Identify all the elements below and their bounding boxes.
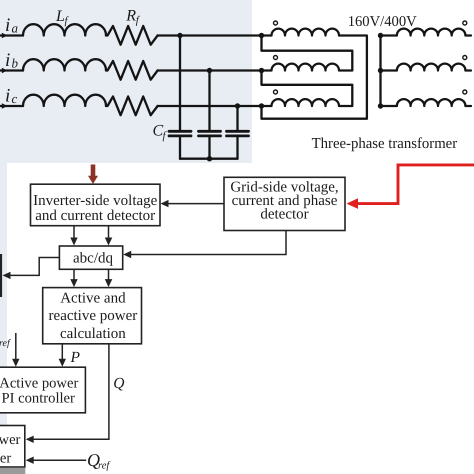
capacitor Cf branch 3 wire bottom bbox=[236, 137, 238, 159]
wire Q to reactive power controller bbox=[30, 344, 109, 440]
transformer secondary bus bbox=[379, 36, 381, 107]
phase b input arrowhead bbox=[2, 68, 8, 74]
transformer secondary winding 2 bbox=[381, 64, 472, 71]
arrowhead power calc top left bbox=[70, 279, 77, 287]
polarity dot primary 3 bbox=[274, 90, 278, 94]
wire Uref to active power controller bbox=[15, 333, 17, 364]
arrowhead into PWM sliver bbox=[3, 272, 11, 279]
svg-text:a: a bbox=[12, 21, 19, 36]
svg-text:PI controller: PI controller bbox=[2, 390, 75, 406]
wire inverter detector to abc/dq left bbox=[73, 226, 75, 243]
capacitor Cf branch 1 wire bottom bbox=[179, 137, 181, 159]
resistor Rf phase c bbox=[106, 97, 158, 116]
junction node delta C bbox=[259, 103, 264, 108]
svg-text:L: L bbox=[55, 8, 65, 25]
svg-text:P: P bbox=[70, 349, 81, 366]
arrowhead Uref into active power controller bbox=[12, 359, 19, 367]
inductor Lf phase b bbox=[23, 59, 106, 70]
box grid-side voltage current and phase detector bbox=[224, 177, 345, 230]
inductor Lf phase c bbox=[23, 95, 106, 106]
junction node delta A bbox=[259, 33, 264, 38]
svg-text:abc/dq: abc/dq bbox=[73, 251, 113, 267]
gray shadow under reactive power box bbox=[0, 468, 25, 474]
box active power PI controller (cut at left) bbox=[0, 367, 85, 413]
wire phase b input bbox=[0, 69, 23, 71]
svg-text:detector: detector bbox=[260, 207, 308, 223]
left edge strip bbox=[0, 163, 7, 474]
wire phase c input bbox=[0, 105, 23, 107]
capacitor Cf branch 3 plates bbox=[227, 131, 249, 136]
svg-text:b: b bbox=[12, 56, 19, 71]
box abc/dq bbox=[59, 246, 122, 269]
red arrowhead into grid-side detector bbox=[347, 198, 359, 209]
polarity dot primary 2 bbox=[274, 56, 278, 60]
svg-text:calculation: calculation bbox=[60, 326, 126, 342]
wire abc/dq to power calc right bbox=[108, 269, 110, 283]
wire abc/dq to PWM sliver bbox=[7, 258, 59, 276]
arrowhead Qref into reactive power controller bbox=[26, 457, 34, 464]
svg-text:Three-phase transformer: Three-phase transformer bbox=[312, 135, 458, 152]
phase c input arrowhead bbox=[2, 103, 8, 109]
svg-text:i: i bbox=[5, 15, 10, 36]
junction node delta B bbox=[259, 68, 264, 73]
transformer primary winding 3 bbox=[262, 71, 353, 107]
junction node phase a / cap1 bbox=[177, 33, 182, 38]
arrowhead P into active power controller bbox=[59, 359, 66, 367]
arrowhead power calc top right bbox=[105, 279, 113, 287]
arrowhead abc/dq top right bbox=[105, 238, 113, 246]
transformer primary winding 1 bbox=[262, 29, 367, 119]
svg-text:Inverter-side voltage: Inverter-side voltage bbox=[33, 193, 158, 209]
phase a input arrowhead bbox=[2, 33, 8, 39]
wire inverter detector to abc/dq right bbox=[108, 226, 110, 243]
wire Qref to reactive power controller bbox=[30, 459, 86, 461]
wire grid detector to abc/dq bbox=[127, 231, 286, 255]
polarity dot secondary 1 bbox=[463, 21, 467, 25]
polarity dot secondary 2 bbox=[463, 56, 467, 60]
wire grid-side detector to inverter-side detector bbox=[164, 203, 224, 205]
junction node phase b / cap2 bbox=[207, 68, 212, 73]
svg-text:Active and: Active and bbox=[60, 291, 126, 307]
transformer primary winding 2 bbox=[262, 36, 353, 71]
wire P to active power controller bbox=[61, 344, 63, 364]
red line from grid to grid-side detector bbox=[356, 165, 474, 204]
svg-text:and current detector: and current detector bbox=[35, 208, 155, 224]
arrowhead abc/dq top left bbox=[70, 238, 77, 246]
capacitor Cf branch 1 plates bbox=[169, 131, 191, 136]
svg-text:160V/400V: 160V/400V bbox=[348, 14, 417, 30]
transformer secondary winding 3 bbox=[381, 99, 472, 106]
polarity dot primary 1 bbox=[274, 21, 278, 25]
junction node wye 1 bbox=[378, 33, 383, 38]
svg-text:i: i bbox=[5, 50, 10, 71]
inductor Lf phase a bbox=[23, 24, 106, 35]
svg-text:reactive power: reactive power bbox=[49, 308, 138, 324]
svg-text:Active power: Active power bbox=[0, 375, 78, 391]
svg-text:R: R bbox=[125, 7, 136, 24]
resistor Rf phase b bbox=[106, 61, 158, 80]
resistor Rf phase a bbox=[106, 26, 158, 45]
svg-text:ref: ref bbox=[0, 338, 11, 349]
box reactive power PI controller (cut at left) bbox=[0, 426, 25, 468]
wire phase a to transformer bbox=[158, 34, 262, 36]
box active and reactive power calculation bbox=[43, 288, 142, 344]
arrowhead Q into reactive power controller bbox=[26, 436, 34, 443]
transformer secondary winding 1 bbox=[381, 29, 472, 36]
capacitor Cf branch 2 plates bbox=[199, 131, 221, 136]
wire phase c to transformer bbox=[158, 105, 262, 107]
capacitor Cf branch 2 wire top bbox=[208, 71, 210, 131]
wire abc/dq to power calc left bbox=[73, 269, 75, 283]
svg-text:c: c bbox=[12, 91, 18, 106]
svg-text:i: i bbox=[5, 86, 10, 107]
svg-text:PI controller: PI controller bbox=[0, 451, 11, 467]
arrowhead into abc/dq right bbox=[123, 251, 131, 258]
capacitor Cf branch 3 wire top bbox=[236, 106, 238, 130]
polarity dot secondary 3 bbox=[463, 90, 467, 94]
junction node wye 3 bbox=[378, 103, 383, 108]
capacitor bottom rail bbox=[180, 158, 238, 160]
svg-text:Reactive power: Reactive power bbox=[0, 432, 21, 448]
junction node phase c / cap3 bbox=[235, 103, 240, 108]
arrowhead into inverter detector right bbox=[161, 200, 169, 207]
wire phase b to transformer bbox=[158, 69, 262, 71]
junction node cap rail bbox=[207, 156, 212, 161]
box inverter-side voltage and current detector bbox=[31, 184, 161, 226]
filter panel background bbox=[0, 0, 252, 163]
capacitor Cf branch 1 wire top bbox=[179, 36, 181, 131]
dark red arrow into inverter-side detector bbox=[88, 165, 98, 185]
wire phase a input bbox=[0, 34, 23, 36]
junction node wye 2 bbox=[378, 68, 383, 73]
capacitor Cf branch 2 wire bottom bbox=[208, 137, 210, 159]
box PWM sliver (cut at left edge) bbox=[0, 254, 2, 297]
svg-text:Q: Q bbox=[113, 375, 124, 392]
